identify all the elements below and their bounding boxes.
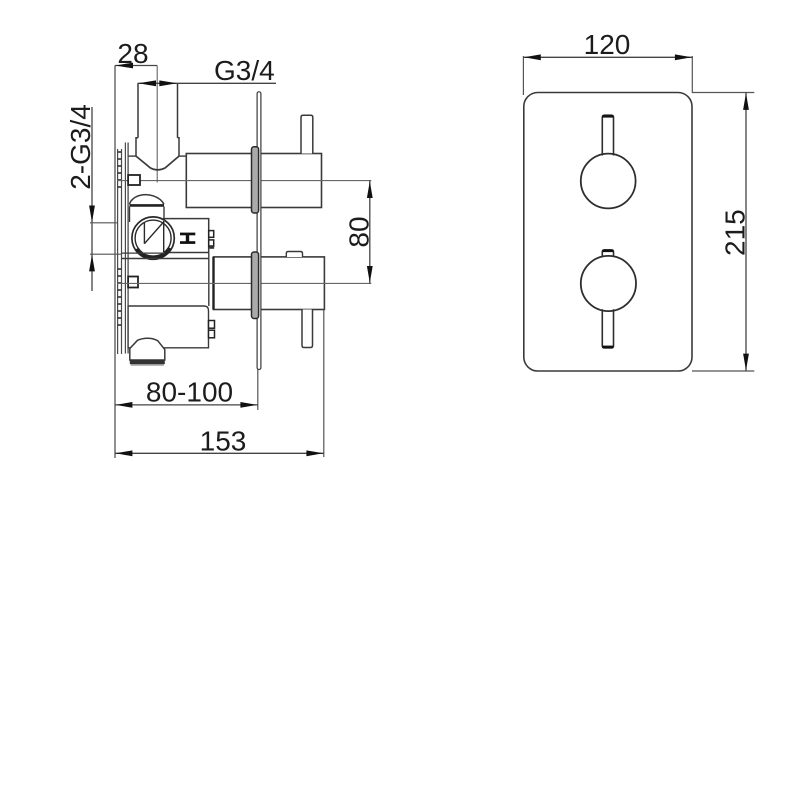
80 down arrow bbox=[367, 266, 373, 283]
H letter bottom bar bbox=[180, 241, 195, 244]
120 dim left ext bbox=[522, 56, 524, 95]
G3/4 right arrow bbox=[159, 80, 177, 86]
inlet pipe walls bbox=[137, 83, 139, 138]
ext line lower port bbox=[90, 253, 122, 255]
fitting on top of bottom body bbox=[286, 252, 302, 258]
bottom knob index tab bbox=[602, 250, 613, 257]
120 dim right ext bbox=[691, 56, 693, 93]
80-100 left arrow bbox=[116, 402, 133, 408]
top valve body bbox=[186, 154, 321, 208]
funnel shoulder right connector bbox=[179, 155, 186, 157]
neck sides bbox=[129, 207, 131, 223]
funnel cone bbox=[136, 156, 179, 170]
215 bottom ext line bbox=[692, 370, 754, 372]
cartridge circle outer bbox=[132, 217, 174, 259]
2-G3/4 leader / dimension line bbox=[91, 107, 93, 291]
bottom knob circle bbox=[581, 256, 636, 311]
80-100 right arrow bbox=[240, 402, 257, 408]
svg-text:80-100: 80-100 bbox=[146, 377, 233, 408]
ext line upper port bbox=[90, 222, 118, 224]
lower mounting boss bbox=[128, 277, 138, 288]
trim plate (edge view, thin) bbox=[257, 92, 261, 370]
bottom tab cap thick bbox=[602, 250, 613, 252]
215 top ext line bbox=[692, 92, 754, 94]
153 right arrow bbox=[306, 450, 323, 456]
215 dimension line bbox=[745, 93, 747, 372]
H housing rectangle bbox=[164, 219, 209, 253]
top knob circle bbox=[581, 154, 636, 209]
153 left arrow bbox=[116, 450, 133, 456]
120 left arrow bbox=[524, 54, 541, 60]
plate thread ticks lower bbox=[118, 269, 122, 325]
G3/4 leader line bbox=[138, 82, 276, 84]
153 right ext line bbox=[323, 310, 325, 458]
215 down arrow bbox=[743, 354, 749, 371]
80-100 dimension line bbox=[115, 404, 258, 406]
cartridge chord right bbox=[163, 221, 165, 252]
outlet spout bbox=[130, 338, 165, 360]
bottom knob stem bbox=[602, 309, 613, 348]
svg-text:G3/4: G3/4 bbox=[214, 55, 275, 86]
cartridge chord left bbox=[143, 223, 145, 244]
cartridge diagonal bbox=[144, 222, 163, 244]
80 up arrow bbox=[367, 181, 373, 198]
plate stack line 3 bbox=[124, 143, 126, 354]
pipe flare step bbox=[136, 138, 179, 156]
153 dimension line bbox=[115, 452, 324, 454]
top knob stem bbox=[602, 115, 613, 155]
plate bar over top body bbox=[252, 147, 259, 213]
dome base thick line bbox=[130, 204, 165, 207]
tab foot block bbox=[209, 245, 214, 249]
top stem cap thick bbox=[602, 115, 613, 117]
svg-text:120: 120 bbox=[584, 29, 631, 60]
upper mounting boss bbox=[128, 175, 140, 185]
svg-text:28: 28 bbox=[117, 38, 148, 69]
thermostat dome cap bbox=[130, 195, 165, 205]
bottom stem (side view) bbox=[302, 310, 313, 348]
cartridge bottom thick arc bbox=[137, 248, 171, 258]
line under cartridge bbox=[121, 258, 208, 260]
svg-text:215: 215 bbox=[720, 209, 751, 256]
lower-left block bbox=[128, 306, 208, 348]
mid section right edge bbox=[208, 253, 210, 306]
120 right arrow bbox=[675, 54, 692, 60]
2-G3/4 down arrow bbox=[89, 206, 95, 223]
spout bottom thick band bbox=[130, 360, 165, 364]
H letter middle bar bbox=[186, 235, 189, 242]
top body centerline bbox=[117, 180, 371, 182]
dimension 28 arrow bbox=[116, 63, 134, 69]
svg-text:153: 153 bbox=[200, 426, 247, 457]
120 dimension line bbox=[523, 56, 692, 58]
2-G3/4 up arrow bbox=[89, 255, 95, 272]
plate stack line 2 bbox=[121, 149, 123, 354]
215 up arrow bbox=[743, 93, 749, 110]
upper outlet tabs bbox=[209, 231, 214, 238]
bottom body centerline bbox=[117, 282, 371, 284]
80 dimension line bbox=[369, 181, 371, 284]
mid flange line bbox=[121, 252, 165, 254]
plate stack front face bbox=[127, 143, 129, 354]
trim plate front bbox=[524, 93, 692, 372]
bottom valve body bbox=[214, 257, 325, 310]
pipe centerline bbox=[156, 66, 158, 183]
H letter (rotated) top bar bbox=[180, 233, 195, 236]
svg-text:80: 80 bbox=[344, 216, 375, 247]
plate ext line for 80-100 bbox=[257, 370, 259, 411]
plate bar over bottom body bbox=[252, 252, 259, 319]
wall / left extension line bbox=[114, 66, 116, 459]
bottom body left edge thick bbox=[212, 257, 214, 310]
plate stack line 1 bbox=[117, 149, 119, 354]
lower outlet tabs bbox=[209, 321, 215, 329]
bottom stem cap thick bbox=[602, 346, 613, 348]
top stem (side view) bbox=[301, 115, 313, 153]
dimension 28 line bbox=[115, 65, 157, 67]
funnel shoulder left connector bbox=[128, 155, 136, 157]
cartridge circle inner bbox=[135, 220, 171, 256]
G3/4 left arrow bbox=[138, 80, 156, 86]
plate thread ticks upper bbox=[118, 152, 122, 187]
